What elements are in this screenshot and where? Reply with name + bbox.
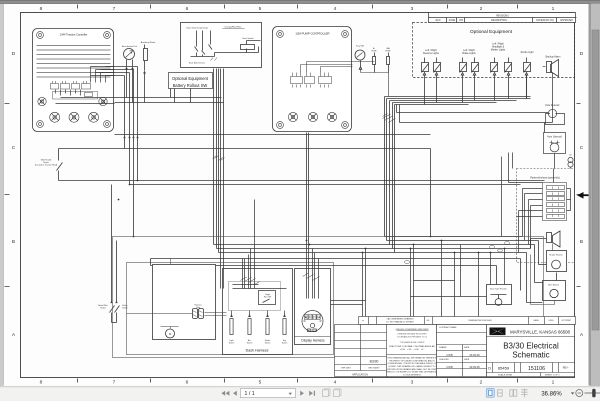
svg-text:5: 5 <box>259 6 262 12</box>
svg-text:SCALE NONE: SCALE NONE <box>498 374 513 377</box>
svg-text:B: B <box>580 239 583 245</box>
approvals column <box>437 325 487 377</box>
svg-text:CONFIDENTIAL. IT MUST NOT BE M: CONFIDENTIAL. IT MUST NOT BE MADE PUBLIC… <box>387 362 437 365</box>
svg-text:Acc: Acc <box>248 339 251 342</box>
svg-text:TOLERANCES ALLOWED: TOLERANCES ALLOWED <box>400 341 425 344</box>
lamp DS1 <box>422 58 429 105</box>
traction pin drops <box>91 67 139 237</box>
svg-text:DIMENSIONS ARE IN INCHES: DIMENSIONS ARE IN INCHES <box>398 333 428 336</box>
prev view icon <box>323 389 331 397</box>
zoom out button <box>576 390 583 397</box>
svg-text:Switch: Switch <box>265 342 271 345</box>
svg-text:TO OUR INTEREST.: TO OUR INTEREST. <box>403 374 422 376</box>
svg-text:Marker Lights: Marker Lights <box>491 49 506 52</box>
svg-text:FUSE: FUSE <box>385 50 391 52</box>
svg-text:1: 1 <box>552 380 555 386</box>
title block <box>335 317 576 377</box>
motor terminal M1 <box>50 112 60 122</box>
connector block J2 <box>291 73 332 88</box>
power terminal B- <box>38 97 46 105</box>
svg-text:3: 3 <box>411 6 414 12</box>
accelerator potentiometer R1 <box>122 45 137 103</box>
pump terminal P3 <box>327 112 336 121</box>
fuse F2 40A <box>361 47 392 97</box>
number row <box>487 363 575 373</box>
zoom slider <box>585 392 600 394</box>
svg-text:M: M <box>169 332 171 336</box>
svg-text:Dash Harness: Dash Harness <box>246 349 269 353</box>
single page view (active) <box>486 389 494 398</box>
main bus right bends <box>214 237 547 303</box>
svg-text:COPIED. THIS DRAWING IS LOANED: COPIED. THIS DRAWING IS LOANED SUBJECT T… <box>388 365 436 368</box>
svg-text:SHEET 1 OF 1: SHEET 1 OF 1 <box>545 375 560 377</box>
svg-text:151106: 151106 <box>528 366 545 372</box>
svg-text:DATE: DATE <box>464 358 470 361</box>
svg-text:D: D <box>580 51 584 57</box>
svg-text:8: 8 <box>40 380 43 386</box>
light switch S7 <box>229 311 235 345</box>
svg-text:Switch: Switch <box>100 306 106 309</box>
svg-text:FUSE: FUSE <box>371 50 377 52</box>
svg-text:4: 4 <box>334 6 337 12</box>
next view icon <box>334 389 342 397</box>
wire pump drop <box>307 133 309 245</box>
lamp DS4 <box>472 58 479 101</box>
twisted marks on bundle <box>383 114 396 123</box>
svg-text:Seat Belt Sensor: Seat Belt Sensor <box>189 62 206 65</box>
svg-text:Auxiliary Brake: Auxiliary Brake <box>141 41 156 44</box>
svg-text:MARYSVILLE, KANSAS 66508: MARYSVILLE, KANSAS 66508 <box>510 330 570 335</box>
svg-text:1: 1 <box>552 6 555 12</box>
strobe lamp DS7 <box>524 58 531 99</box>
svg-text:Schematic: Schematic <box>512 351 549 360</box>
key switch S10 <box>282 311 288 345</box>
svg-text:REV -: REV - <box>563 367 570 370</box>
right scrollbar <box>591 4 600 387</box>
horn speaker LS2 <box>547 231 561 251</box>
relay K1 <box>241 45 255 50</box>
wire traction to rollout box <box>115 89 431 135</box>
svg-text:5: 5 <box>259 380 262 386</box>
svg-text:D: D <box>488 367 491 371</box>
svg-text:Switch: Switch <box>247 342 253 345</box>
svg-text:Flow Detector: Flow Detector <box>545 104 559 107</box>
svg-text:CAGE: CAGE <box>533 319 539 322</box>
wire feeds bottom right <box>363 157 505 317</box>
horn solenoid K2 <box>544 133 566 169</box>
svg-text:B3/30: B3/30 <box>370 360 379 364</box>
svg-text:DESCRIPTION: DESCRIPTION <box>491 20 507 22</box>
wires into display <box>303 241 366 305</box>
heatsink fins <box>37 46 111 78</box>
zoom dropdown caret <box>571 392 575 394</box>
harness plug P1 <box>127 304 227 319</box>
annotation arrow marker <box>577 192 589 199</box>
lamp DS2 <box>434 58 441 103</box>
first page button <box>221 391 229 396</box>
svg-text:REF DWG: REF DWG <box>341 367 351 369</box>
strobe flasher K3 <box>547 251 567 281</box>
svg-text:Switch: Switch <box>122 306 128 309</box>
svg-text:6: 6 <box>186 6 189 12</box>
next page button <box>300 391 304 396</box>
svg-text:PROPERTY OF LINDER CORPORATION: PROPERTY OF LINDER CORPORATION, AND IS <box>389 359 435 362</box>
parker connector J3 <box>543 183 567 221</box>
wires parker stubs <box>509 153 571 253</box>
junction dots <box>118 180 506 254</box>
seat switch contacts <box>197 31 211 57</box>
svg-text:Backup Alarm: Backup Alarm <box>546 56 561 59</box>
svg-text:CKB: CKB <box>446 365 452 369</box>
toggle horn switch S11 <box>259 291 276 305</box>
svg-text:6: 6 <box>186 380 189 386</box>
svg-text:09.09.28: 09.09.28 <box>469 365 480 369</box>
svg-text:RETURN UPON DEMAND AND SHALL N: RETURN UPON DEMAND AND SHALL NOT BE USED <box>387 368 437 371</box>
svg-text:Accelerator Pot: Accelerator Pot <box>122 45 137 48</box>
key switch S2 <box>355 46 365 70</box>
svg-text:Strobe Flasher: Strobe Flasher <box>549 254 563 257</box>
svg-text:DWG: DWG <box>549 320 554 322</box>
harness boundary B <box>127 263 334 355</box>
internal wiring to connector <box>56 67 115 104</box>
horn button S3 <box>531 255 566 305</box>
wires into dash <box>221 200 287 289</box>
label brake lights <box>462 49 476 55</box>
svg-text:Light: Light <box>229 339 234 342</box>
label reverse lights <box>423 49 440 55</box>
svg-text:WT PRINT: WT PRINT <box>562 320 572 322</box>
svg-text:Seat Switch (optional): Seat Switch (optional) <box>186 27 208 30</box>
svg-text:Optional Equipment: Optional Equipment <box>470 29 513 35</box>
dash harness box <box>223 269 293 355</box>
brake switch S6 <box>112 241 128 323</box>
svg-text:3: 3 <box>411 380 414 386</box>
connector block J1 <box>51 81 98 99</box>
svg-text:REVISIONS: REVISIONS <box>496 15 509 17</box>
svg-text:DIRECTLY OR INDIRECTLY IN ANY: DIRECTLY OR INDIRECTLY IN ANY WAY DETRIM… <box>386 371 439 374</box>
application table <box>335 325 388 377</box>
svg-text:TOLERANCES PER ANSI Y14.5: TOLERANCES PER ANSI Y14.5 <box>397 336 428 339</box>
svg-text:36.86%: 36.86% <box>541 392 562 398</box>
bus junction labels <box>404 242 509 264</box>
internal wiring <box>301 62 353 73</box>
harness boundary A <box>113 237 544 358</box>
motor terminal M2 <box>69 112 79 122</box>
bottom toolbar <box>0 386 600 401</box>
svg-text:DO NOT MANUALLY UPDATE: DO NOT MANUALLY UPDATE <box>386 320 414 323</box>
lamp DS6 <box>505 58 512 99</box>
svg-text:THIS DRAWING AND ALL INFORMATI: THIS DRAWING AND ALL INFORMATION THEREIN… <box>387 357 437 360</box>
backup alarm LS1 <box>543 60 559 123</box>
svg-text:LTR: LTR <box>459 20 464 22</box>
svg-text:APPROVED: APPROVED <box>560 19 573 22</box>
twisted marks <box>241 277 260 285</box>
battery display gauge G1 <box>302 311 323 332</box>
svg-text:4: 4 <box>334 380 337 386</box>
svg-text:DIMENSIONS IN INCHES: DIMENSIONS IN INCHES <box>468 320 492 322</box>
traction controller U1 <box>33 29 115 132</box>
flow detector B1 <box>545 104 564 125</box>
svg-text:DATE: DATE <box>464 346 470 349</box>
page number box <box>241 389 296 398</box>
svg-text:Orange/Red Wire: Orange/Red Wire <box>224 26 242 29</box>
svg-text:C: C <box>12 145 16 151</box>
svg-text:Seat Switch: Seat Switch <box>242 37 254 40</box>
svg-text:B3/30 Electrical: B3/30 Electrical <box>503 342 559 351</box>
svg-text:Reverse Lights: Reverse Lights <box>423 52 440 55</box>
fuse F1 B+ <box>353 48 378 73</box>
facing view icon <box>510 390 517 396</box>
svg-text:1 / 1: 1 / 1 <box>245 391 255 397</box>
svg-text:Seat Tube Flasher: Seat Tube Flasher <box>490 288 507 291</box>
acc switch S8 <box>247 311 253 345</box>
wire horn feed <box>400 105 553 133</box>
seat switch box S1 <box>181 23 262 68</box>
svg-text:Parker/chelsea (assembly): Parker/chelsea (assembly) <box>530 177 560 180</box>
svg-text:APPLICATION: APPLICATION <box>352 373 368 376</box>
auxiliary brake coil L1 <box>141 41 156 103</box>
svg-text:Switch: Switch <box>229 342 235 345</box>
svg-text:±1/16 ±.03 ±.010 ±1°: ±1/16 ±.03 ±.010 ±1° <box>400 349 425 351</box>
pump terminal P2 <box>308 112 317 121</box>
lower bus wires <box>151 259 521 291</box>
svg-text:Brake Lights: Brake Lights <box>462 52 476 55</box>
svg-text:Strobe: Strobe <box>265 339 271 342</box>
svg-text:DRAWN: DRAWN <box>439 346 447 349</box>
motor terminal M3 <box>89 112 99 122</box>
lamp DS3 <box>460 58 467 103</box>
display harness box <box>295 269 331 345</box>
svg-text:UNLESS OTHERWISE SPECIFIED: UNLESS OTHERWISE SPECIFIED <box>396 329 429 331</box>
wire flow detector feed <box>397 105 549 113</box>
logo and company <box>487 325 575 377</box>
prev page button <box>233 391 237 396</box>
label headlights <box>491 43 506 52</box>
svg-text:12M PUMP CONTROLLER: 12M PUMP CONTROLLER <box>295 32 329 36</box>
svg-text:Horn SW: Horn SW <box>264 296 272 298</box>
svg-text:ECN: ECN <box>436 20 441 22</box>
seat tube flasher K4 <box>487 285 512 306</box>
svg-text:C: C <box>580 145 584 151</box>
power terminal B+ <box>99 97 107 105</box>
svg-text:Strobe Light: Strobe Light <box>521 51 534 54</box>
svg-text:B: B <box>12 239 15 245</box>
svg-text:2: 2 <box>480 380 483 386</box>
header strip <box>359 317 576 325</box>
svg-text:09.09.28: 09.09.28 <box>469 353 480 357</box>
svg-text:Display Harness: Display Harness <box>301 339 325 343</box>
pump terminal P1 <box>288 112 297 121</box>
svg-text:b0: b0 <box>569 155 571 157</box>
svg-text:Battery Rollout SW: Battery Rollout SW <box>173 83 208 88</box>
svg-text:ZONE: ZONE <box>449 20 456 22</box>
svg-text:Horn Solenoid: Horn Solenoid <box>547 136 562 139</box>
parker chelsea assembly dashed box <box>517 169 575 263</box>
optional equipment dashed box <box>413 23 575 78</box>
lamp bus wires <box>383 75 531 253</box>
drive motor M1 box <box>153 259 216 340</box>
svg-text:Optional Equipment: Optional Equipment <box>172 76 209 81</box>
svg-text:8: 8 <box>40 6 43 12</box>
svg-text:Switch: Switch <box>282 342 288 345</box>
continuous view icon <box>498 390 503 396</box>
revisions table <box>429 13 577 23</box>
svg-text:7: 7 <box>113 6 116 12</box>
svg-text:CONTRACT NAME: CONTRACT NAME <box>439 326 457 329</box>
wire bundle seat to bus <box>213 69 225 269</box>
last page button <box>309 391 315 396</box>
pump controller U2 <box>273 27 353 132</box>
brake tiller switch S5 <box>98 185 114 323</box>
optional equipment rollout label box <box>169 73 213 89</box>
twisted pair marks <box>213 156 225 161</box>
svg-text:D: D <box>12 51 16 57</box>
svg-text:Horn Button: Horn Button <box>548 284 560 287</box>
lamp DS5 <box>491 58 498 101</box>
svg-text:CKB: CKB <box>446 353 452 357</box>
strobe switch S9 <box>265 311 271 345</box>
continuous facing icon <box>521 389 527 398</box>
svg-text:1344 Traction Controller: 1344 Traction Controller <box>60 33 88 37</box>
svg-text:65459: 65459 <box>498 365 510 370</box>
connector b0 <box>568 155 573 169</box>
long control wires <box>59 149 545 237</box>
svg-text:Key SW: Key SW <box>356 46 365 48</box>
svg-text:7: 7 <box>113 380 116 386</box>
svg-text:FRACTIONS 1 DECIMAL 2 DECI: FRACTIONS 1 DECIMAL 2 DECIMAL ANGULAR <box>389 345 435 348</box>
svg-text:(Located in Traction Head): (Located in Traction Head) <box>35 164 58 167</box>
svg-text:DATE(M-DD-YR): DATE(M-DD-YR) <box>536 19 554 22</box>
svg-text:▲: ▲ <box>362 319 364 322</box>
svg-text:NEXT ASSY: NEXT ASSY <box>368 366 380 369</box>
top ruler strip <box>0 0 600 4</box>
svg-text:2: 2 <box>480 6 483 12</box>
notes column <box>387 325 437 377</box>
svg-text:CHECKED: CHECKED <box>439 359 449 361</box>
tiller throttle switch S4 <box>35 149 63 181</box>
svg-text:CAD GENERATED DRAWING: CAD GENERATED DRAWING <box>386 318 414 321</box>
